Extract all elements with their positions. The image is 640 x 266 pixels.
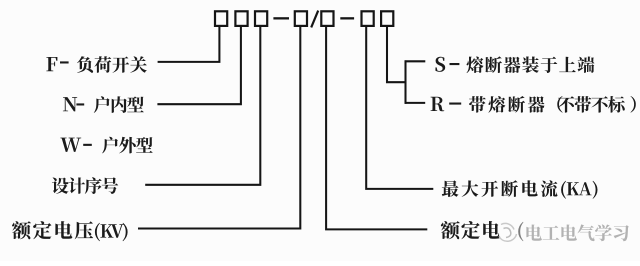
label design serial number: [52, 177, 118, 194]
box 7: [381, 11, 393, 26]
wire box7 fork stem: [387, 27, 406, 82]
box 2: [235, 11, 247, 26]
box 3: [255, 11, 267, 26]
label R- with fuse (unmarked if none): [431, 97, 445, 112]
box 4: [295, 11, 307, 26]
wire box2 to N label: [157, 27, 241, 104]
hyphen between box 3 and box 4: [273, 17, 289, 19]
watermark logo swirl: [499, 223, 517, 241]
label rated current (partially covered): [441, 221, 500, 239]
watermark paren remnant: [518, 222, 523, 242]
slash between box 4 and box 5: [311, 11, 318, 28]
box 5: [321, 11, 333, 26]
wire box3 to design-serial label: [145, 27, 260, 185]
wire box4 to rated-voltage label: [138, 27, 300, 229]
wire box1 to F label: [158, 27, 220, 62]
hyphen between box 5 and box 6: [340, 17, 354, 19]
wire box6 to max-breaking-current label: [366, 27, 433, 189]
box 6: [362, 11, 374, 26]
wire fork to S label: [405, 60, 426, 62]
label N- indoor type: [63, 97, 77, 111]
wire fork vertical: [404, 60, 406, 103]
watermark text: [526, 224, 629, 241]
label S- fuse mounted on top: [435, 57, 445, 72]
box 1: [215, 11, 227, 26]
label F- load switch: [46, 57, 57, 71]
wire box5 to rated-current label: [326, 27, 427, 230]
label W- outdoor type: [60, 138, 81, 152]
label rated voltage (KV): [12, 221, 93, 239]
label max breaking current (KA): [442, 180, 558, 197]
wire fork to R label: [405, 102, 426, 104]
